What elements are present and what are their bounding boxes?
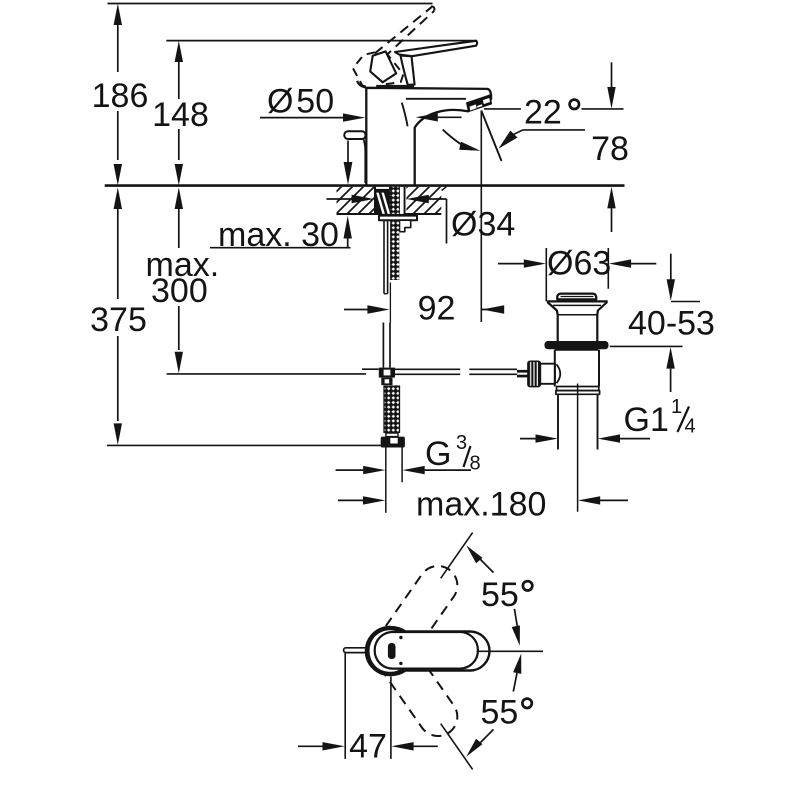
lever neck (401, 56, 415, 85)
svg-text:40-53: 40-53 (628, 305, 715, 343)
svg-text:G: G (425, 435, 451, 473)
dashed swung lever -55 (lower) (365, 624, 465, 744)
lever knob pentagon (closed) (370, 51, 396, 82)
svg-text:300: 300 (151, 272, 208, 310)
gasket black band (545, 341, 609, 349)
55 deg rays (441, 533, 473, 579)
dashed swung lever +55 (upper) (365, 558, 465, 678)
countertop hatched slab right part (406, 187, 441, 214)
pull rod push arrow (347, 141, 349, 163)
dashed lever tip cap (431, 7, 434, 11)
hose collar (386, 433, 398, 437)
svg-text:8: 8 (470, 453, 481, 475)
svg-text:Ø34: Ø34 (451, 206, 515, 244)
faucet body outline (366, 88, 491, 185)
small dots (399, 636, 402, 639)
dashed knob outline (open position) (353, 52, 403, 88)
white slot top (376, 187, 389, 189)
countertop hatched slab left part (337, 187, 375, 214)
rod right of T segment 1 (395, 368, 460, 370)
thick escutcheon arc (367, 628, 404, 674)
spout inner bend line (402, 103, 408, 127)
22deg swing arc (443, 130, 472, 150)
knurled knob (528, 361, 540, 386)
dim 375 (114, 187, 122, 209)
svg-text:186: 186 (92, 77, 149, 115)
svg-text:max.180: max.180 (416, 486, 546, 524)
svg-text:4: 4 (685, 416, 696, 438)
reference line top (lever open tip level, 186) (108, 3, 433, 5)
svg-text:Ø 50: Ø 50 (267, 83, 334, 121)
countertop line (105, 184, 625, 187)
solid lever blade (395, 41, 477, 56)
upper 55 arc segment at ray (477, 556, 494, 573)
rod stub left of T (362, 368, 379, 370)
pop-up knob dome (557, 294, 596, 300)
flex hose braided upper (390, 220, 399, 280)
drain body below gasket (555, 350, 599, 387)
dim 148 (178, 62, 180, 99)
body bottom rings (557, 387, 599, 391)
drain flange and neck (547, 300, 608, 302)
pull rod lower (382, 323, 384, 368)
handle front lip hook (357, 81, 366, 88)
pop-up horizontal rod left single line (167, 373, 366, 375)
spout inner top line (406, 98, 466, 100)
inner lever face (375, 632, 478, 669)
reference line (lever closed tip level, 148) (166, 40, 476, 42)
T junction block (379, 368, 395, 378)
slab right corner dash (442, 187, 447, 191)
junction stub below (381, 378, 392, 385)
rod stem at knurled knob (517, 370, 528, 373)
svg-text:3: 3 (456, 432, 467, 454)
svg-text:148: 148 (152, 96, 209, 134)
side port inner arc (557, 364, 561, 383)
upper 55 arc segment at centerline (514, 609, 517, 628)
side port (540, 364, 555, 384)
dim 47 (344, 653, 346, 759)
flex hose braided lower (384, 385, 400, 433)
pop-up pull rod knob (344, 131, 365, 139)
svg-text:47: 47 (349, 728, 387, 766)
tailpipe (557, 394, 559, 449)
aerator tip band (467, 95, 492, 112)
G3/8 nut (381, 437, 405, 448)
drain centerline (577, 384, 579, 512)
dashed lever (open position) blade (375, 7, 434, 58)
mounting stud (smooth rod) (383, 220, 385, 294)
logo blob (388, 643, 396, 659)
svg-text:22: 22 (524, 94, 562, 132)
dim max.300 (175, 187, 183, 209)
spout bar (top view) (344, 648, 372, 653)
ref line 375 bottom (107, 444, 381, 446)
svg-text:55: 55 (481, 576, 519, 614)
mounting hole black cavity (374, 187, 406, 214)
dim 186 (117, 25, 119, 72)
sleeve white column (400, 187, 404, 214)
cartridge collar dark band (376, 85, 414, 88)
rod right segment 2 after break (469, 368, 517, 370)
stepped nut piece right (400, 220, 411, 232)
centerline right of lever (477, 650, 544, 652)
horseshoe washer (379, 216, 417, 221)
lower 55 arc segment at ray (477, 729, 494, 746)
svg-text:78: 78 (591, 130, 629, 168)
svg-text:55: 55 (481, 694, 519, 732)
22deg tilted spout axis (481, 111, 501, 162)
clamp wedge white slits (376, 193, 385, 214)
lever outline top view: circle + capsule union (368, 627, 489, 674)
hose break centerline (389, 283, 391, 323)
svg-text:92: 92 (418, 290, 456, 328)
svg-text:G1: G1 (624, 401, 669, 439)
svg-text:Ø63: Ø63 (547, 245, 611, 283)
lower 55 arc segment at centerline (513, 673, 517, 692)
svg-text:1: 1 (671, 396, 682, 418)
22deg vertical ref line (480, 111, 482, 323)
threaded shank braided (390, 187, 399, 214)
slab bottom line (337, 213, 442, 215)
svg-text:375: 375 (90, 301, 147, 339)
